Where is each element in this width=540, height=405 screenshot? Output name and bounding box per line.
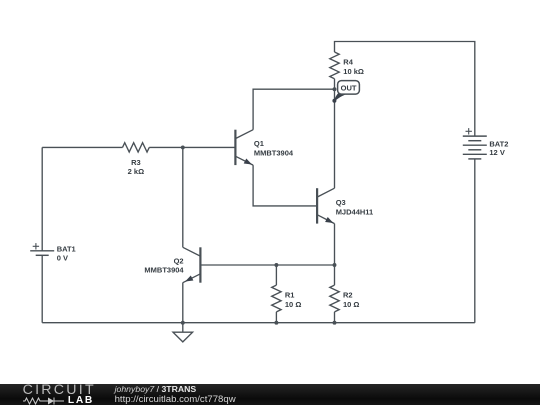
svg-text:2 kΩ: 2 kΩ [128, 167, 144, 176]
svg-text:OUT: OUT [341, 84, 357, 93]
wire from R3 to Q1 base [149, 146, 235, 148]
wire right side BAT2 bottom to bottom rail [474, 159, 476, 323]
battery BAT1 [30, 251, 54, 256]
transistor Q2 label [144, 256, 184, 274]
battery BAT1 plus sign [33, 243, 39, 249]
junction: R1 top [274, 263, 278, 267]
svg-text:Q3: Q3 [336, 198, 346, 207]
resistor R2 [330, 285, 339, 312]
svg-text:10 kΩ: 10 kΩ [343, 67, 364, 76]
wire Q1 emitter down to Q3 base [253, 165, 317, 206]
wire R4 bottom to Q3 collector (OUT net) [334, 79, 336, 188]
wire node A vertical: junction to Q2 collector [182, 147, 184, 247]
footer bar [0, 384, 540, 405]
battery BAT2 label [489, 140, 508, 158]
junction: Q2 base/Q3 emitter/R2 [333, 263, 337, 267]
resistor R1 [272, 285, 281, 312]
svg-text:10 Ω: 10 Ω [285, 300, 301, 309]
svg-text:MMBT3904: MMBT3904 [254, 148, 294, 157]
battery BAT2 plus sign [466, 128, 472, 134]
CircuitLab logo squiggle (resistor + diode) [23, 397, 69, 405]
resistor R3 label [128, 158, 144, 176]
footer url [115, 394, 236, 405]
svg-text:10 Ω: 10 Ω [343, 300, 359, 309]
svg-text:R2: R2 [343, 291, 353, 300]
resistor R1 label [285, 291, 301, 309]
resistor R4 [330, 52, 339, 79]
wire left side top: left rail down to BAT1 [41, 147, 43, 250]
ground [173, 323, 193, 342]
wire from left rail to R3 [42, 146, 122, 148]
svg-text:MMBT3904: MMBT3904 [144, 266, 184, 275]
resistor R3 [123, 143, 150, 152]
junction: Q1 collector/OUT net [333, 87, 337, 91]
wire R2 bottom lead [334, 312, 336, 323]
svg-text:Q1: Q1 [254, 139, 264, 148]
transistor Q3 label [336, 198, 374, 216]
svg-text:0 V: 0 V [57, 253, 68, 262]
svg-text:12 V: 12 V [489, 148, 504, 157]
resistor R2 label [343, 291, 359, 309]
svg-text:R3: R3 [131, 158, 141, 167]
wire left side bottom: BAT1 to bottom rail [41, 255, 43, 322]
svg-text:R1: R1 [285, 291, 295, 300]
svg-text:MJD44H11: MJD44H11 [336, 207, 374, 216]
wire Q2 emitter down to bottom rail [182, 283, 184, 323]
wire R1 top lead [275, 265, 277, 285]
transistor Q1 [235, 130, 253, 165]
wire Q1 collector up and right to OUT node [253, 89, 334, 130]
wire Q3 emitter down to R2 top junction [334, 224, 336, 275]
wire R2 top lead [334, 275, 336, 286]
wire R1 bottom lead [275, 312, 277, 323]
svg-text:R4: R4 [343, 58, 353, 67]
svg-text:Q2: Q2 [174, 256, 184, 265]
footer author/title text [115, 384, 197, 394]
wire Q2 base to R1/R2 tops [200, 264, 334, 266]
CircuitLab logo LAB [68, 397, 94, 405]
transistor Q2 (mirrored) [183, 247, 201, 282]
transistor Q1 label [254, 139, 294, 157]
transistor Q3 [317, 188, 334, 223]
junction: R2 bottom [333, 321, 337, 325]
node OUT flag [332, 81, 359, 103]
battery BAT2 [463, 136, 487, 159]
junction: R1 bottom [274, 321, 278, 325]
svg-text:BAT1: BAT1 [57, 245, 76, 254]
junction: R3/Q1 base/Q2 collector [181, 145, 185, 149]
wire bottom rail [42, 322, 475, 324]
CircuitLab logo wordmark CIRCUIT [23, 382, 96, 398]
battery BAT1 label [57, 245, 76, 263]
resistor R4 label [343, 58, 364, 76]
junction: ground/Q2 emitter [181, 321, 185, 325]
wire top rail from R4 to BAT2 [335, 42, 475, 137]
